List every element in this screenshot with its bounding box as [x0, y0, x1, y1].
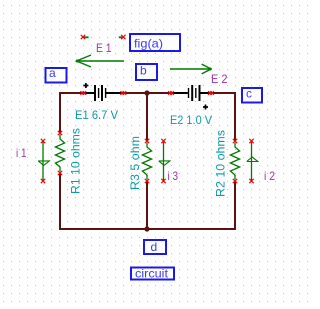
pin marker R2 bottom — [233, 179, 237, 183]
svg-text:E2 1.0 V: E2 1.0 V — [170, 113, 212, 127]
current arrow i1 — [38, 142, 49, 181]
svg-text:b: b — [140, 64, 147, 78]
arrow E1 direction (long green, points left) — [77, 55, 125, 67]
svg-text:E 1: E 1 — [96, 41, 112, 55]
pin marker R3 top — [145, 139, 149, 143]
wire top-left: node a segment from top-left corner to E1 + pin — [59, 92, 84, 94]
pin marker E2 left — [168, 91, 174, 95]
i2 handle top — [249, 139, 253, 143]
junction node d — [144, 226, 149, 231]
svg-text:R1 10 ohms: R1 10 ohms — [69, 128, 83, 194]
i1 handle top — [41, 139, 45, 143]
svg-text:R2 10 ohms: R2 10 ohms — [214, 130, 228, 197]
wire middle branch lower: R3 down to node d — [146, 181, 148, 229]
wire middle branch upper: node b down to R3 — [146, 93, 148, 141]
node box a — [46, 68, 67, 83]
pin marker R1 top — [58, 131, 62, 135]
pin marker R1 bottom — [58, 171, 62, 175]
svg-text:i 1: i 1 — [16, 146, 27, 160]
wire left branch upper: corner a down to R1 — [59, 92, 61, 133]
battery E2 plus sign — [203, 105, 208, 110]
battery E2 lead right (black) — [200, 92, 210, 94]
wire right branch lower: R2 down to bottom-right corner — [234, 181, 236, 230]
pin marker E1 right — [120, 91, 126, 95]
pin marker R2 top — [233, 139, 237, 143]
wire top-middle: E1 - pin to node b to E2 - pin — [123, 92, 171, 94]
title box fig(a) — [130, 34, 180, 51]
svg-text:a: a — [49, 66, 56, 80]
svg-text:i 2: i 2 — [264, 169, 275, 183]
title box circuit — [131, 268, 174, 280]
svg-text:d: d — [151, 240, 158, 254]
svg-text:R3 5 ohm: R3 5 ohm — [128, 136, 142, 190]
annotation handle right — [121, 35, 125, 39]
wire right branch upper: corner c down to R2 — [234, 92, 236, 141]
wire left branch lower: R1 down to bottom-left corner — [59, 173, 61, 230]
annotation handle left — [81, 35, 85, 39]
i3 handle bottom — [161, 179, 165, 183]
svg-text:E 2: E 2 — [211, 72, 228, 86]
current arrow i3 — [159, 142, 170, 181]
selected annotation arrow stub left — [84, 36, 89, 38]
current arrow i2 (points up) — [247, 142, 258, 181]
svg-text:c: c — [246, 87, 252, 101]
battery E2 lead left (black) — [172, 92, 188, 94]
pin marker E2 right — [208, 91, 214, 95]
i3 handle top — [161, 139, 165, 143]
svg-text:fig(a): fig(a) — [134, 36, 163, 50]
resistor R3 zigzag — [142, 143, 151, 180]
battery E1 lead right (black) — [106, 92, 122, 94]
svg-text:i 3: i 3 — [168, 169, 179, 183]
wire bottom: bottom-left corner through node d to bottom-right corner — [59, 228, 236, 230]
resistor R2 zigzag — [230, 143, 239, 180]
junction node b — [144, 90, 149, 95]
node box d — [144, 240, 166, 254]
svg-text:circuit: circuit — [135, 267, 169, 281]
i1 handle bottom — [41, 179, 45, 183]
battery E1 plates — [94, 85, 106, 101]
i2 handle bottom — [249, 179, 253, 183]
battery E1 lead left (black) — [84, 92, 95, 94]
node box b — [136, 64, 157, 80]
pin marker E1 left — [80, 91, 86, 95]
arrow E2 direction (long green, points right) — [170, 64, 211, 74]
resistor R1 zigzag — [55, 135, 64, 172]
node box c — [242, 88, 262, 103]
battery E1 plus sign — [83, 83, 88, 88]
svg-text:E1 6.7 V: E1 6.7 V — [75, 108, 118, 122]
selected annotation arrow stub right — [119, 36, 123, 38]
wire top-right: E2 + pin to top-right corner — [211, 92, 236, 94]
pin marker R3 bottom — [145, 179, 149, 183]
battery E2 plates — [188, 85, 201, 101]
